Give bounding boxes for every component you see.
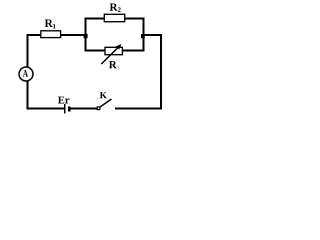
- node junction left: [84, 34, 88, 38]
- wire right jog: [143, 34, 163, 36]
- ammeter A: [19, 67, 33, 81]
- wire parallel left vertical: [85, 18, 87, 52]
- label r: [65, 98, 69, 103]
- label E: [58, 97, 64, 104]
- wire top branch right: [125, 18, 145, 20]
- wire bottom left: [27, 108, 65, 110]
- resistor R1: [41, 31, 61, 38]
- wire bottom branch right: [123, 50, 145, 52]
- label R1: [45, 19, 53, 27]
- label R1 subscript 1: [53, 24, 56, 29]
- wire bottom branch left: [85, 50, 106, 52]
- label R2: [110, 3, 118, 10]
- wire battery to switch: [70, 108, 97, 110]
- rheostat R3: [101, 44, 122, 64]
- resistor R2: [104, 14, 124, 21]
- wire left outer vertical lower: [27, 81, 29, 110]
- wire bottom right: [115, 108, 162, 110]
- switch K: [97, 99, 111, 110]
- wire R1 to parallel block: [61, 34, 87, 36]
- label R3 subscript 3: [117, 66, 120, 70]
- wire top-left horizontal: [27, 34, 42, 36]
- wire parallel right vertical: [143, 18, 145, 52]
- label R2 subscript 2: [118, 7, 121, 12]
- node junction right: [141, 34, 145, 38]
- wire right outer vertical: [160, 34, 162, 110]
- wire left outer vertical upper: [27, 34, 29, 68]
- battery E r: [65, 104, 69, 114]
- wire top branch left: [85, 18, 105, 20]
- label K: [100, 92, 107, 98]
- label R3: [109, 61, 117, 68]
